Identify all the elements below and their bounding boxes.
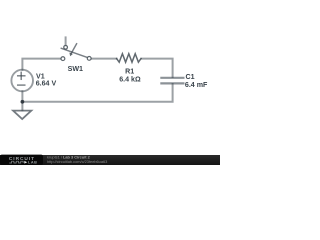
voltage source V1 circle <box>11 70 33 92</box>
wire below V1 to junction <box>21 91 23 102</box>
switch top stub wire <box>65 37 67 45</box>
wire top-left from V1 corner to switch left terminal <box>22 59 60 70</box>
switch actuator line <box>71 44 76 53</box>
svg-text:C1: C1 <box>186 73 195 81</box>
svg-text:R1: R1 <box>125 67 134 75</box>
watermark bar <box>0 155 220 165</box>
logo arrow glyph <box>24 161 27 164</box>
ground symbol triangle <box>13 111 31 119</box>
svg-text:LAB: LAB <box>28 161 37 165</box>
svg-text:6.4 mF: 6.4 mF <box>185 81 208 89</box>
svg-text:6.64 V: 6.64 V <box>36 80 57 88</box>
wire from resistor to top-right corner down to capacitor <box>142 59 173 77</box>
resistor R1 zigzag <box>117 54 141 63</box>
capacitor C1 bottom plate <box>161 82 183 84</box>
svg-text:http://circuitlab.com/c/23feeb: http://circuitlab.com/c/23feeb6ua63 <box>47 159 107 164</box>
switch right terminal circle <box>87 57 91 61</box>
wire from capacitor down to bottom-right corner <box>22 84 172 102</box>
switch left terminal circle <box>61 57 65 61</box>
ground stub <box>21 102 23 111</box>
capacitor C1 top plate <box>161 77 183 79</box>
svg-text:SW1: SW1 <box>68 65 83 73</box>
switch actuator arrowhead <box>69 53 73 57</box>
logo waveform <box>9 161 23 163</box>
V1 minus sign <box>18 84 25 86</box>
node junction dot <box>21 100 25 104</box>
CircuitLab logo box <box>0 155 43 165</box>
V1 plus sign <box>18 75 25 77</box>
switch lever <box>61 48 87 57</box>
wire from switch right terminal to resistor <box>91 58 116 60</box>
switch top terminal circle <box>64 45 68 49</box>
svg-text:6.4 kΩ: 6.4 kΩ <box>119 76 141 84</box>
